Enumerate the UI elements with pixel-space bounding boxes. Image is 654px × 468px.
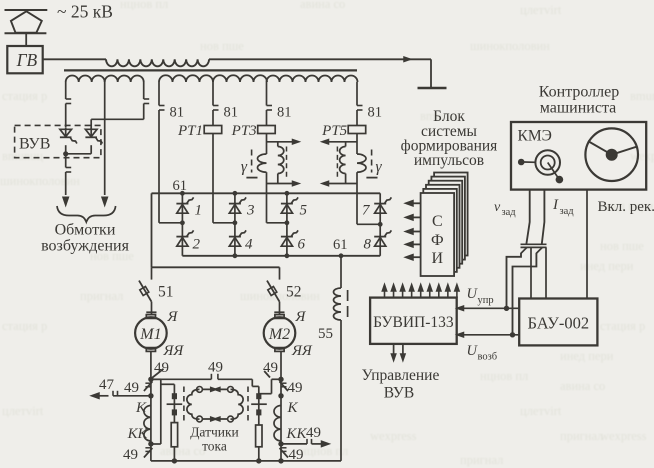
svg-text:Ф: Ф [431,232,444,249]
svg-text:Управление: Управление [362,367,440,384]
svg-text:49: 49 [288,380,303,396]
svg-text:49: 49 [124,380,139,396]
svg-text:61: 61 [173,178,188,194]
svg-text:2: 2 [193,237,201,253]
svg-text:wexpress: wexpress [600,429,647,443]
svg-text:возбуждения: возбуждения [41,238,130,255]
svg-text:КМЭ: КМЭ [518,128,552,145]
svg-text:wexpress: wexpress [370,429,417,443]
svg-text:стация р: стация р [600,319,645,333]
svg-text:49: 49 [154,360,169,376]
svg-text:нов пше: нов пше [600,239,644,253]
svg-text:ВУВ: ВУВ [19,136,50,153]
svg-text:стация р: стация р [2,319,47,333]
svg-text:возб: возб [478,352,498,363]
svg-text:Обмотки: Обмотки [55,222,116,239]
svg-text:γ: γ [241,159,248,176]
svg-text:Датчики: Датчики [190,425,239,440]
svg-text:51: 51 [158,284,174,301]
svg-text:4: 4 [245,237,253,253]
svg-text:52: 52 [286,284,302,301]
svg-text:ГВ: ГВ [16,50,38,70]
svg-text:цлетvirt: цлетvirt [520,404,562,418]
svg-text:РТ5: РТ5 [321,123,348,139]
svg-text:пригнал: пригнал [460,453,503,467]
svg-text:~ 25 кВ: ~ 25 кВ [57,2,113,22]
svg-text:шинокполовин: шинокполовин [0,174,80,188]
svg-text:Контроллер: Контроллер [539,84,619,101]
svg-text:шинокполовин: шинокполовин [470,39,550,53]
svg-text:81: 81 [368,105,383,121]
svg-text:КК: КК [127,426,149,442]
svg-text:49: 49 [263,360,278,376]
svg-text:Я: Я [295,309,307,325]
svg-text:инед пери: инед пери [580,259,634,273]
svg-text:цлетvirt: цлетvirt [520,3,562,17]
svg-text:81: 81 [224,105,239,121]
svg-text:БАУ-002: БАУ-002 [527,314,589,333]
svg-text:нцнов пл: нцнов пл [480,369,528,383]
svg-text:61: 61 [333,237,348,253]
svg-text:авина со: авина со [300,0,345,11]
svg-text:Я: Я [167,309,179,325]
svg-text:3: 3 [246,203,255,219]
svg-text:РТ1: РТ1 [177,123,203,139]
svg-text:wexpress: wexpress [630,149,654,163]
svg-text:ЯЯ: ЯЯ [163,343,185,359]
svg-text:55: 55 [318,326,333,342]
svg-text:I: I [552,197,559,213]
svg-text:упр: упр [478,295,494,306]
svg-text:пригнал: пригнал [80,289,123,303]
svg-text:нцнов пл: нцнов пл [120,0,168,11]
svg-text:нов пше: нов пше [200,39,244,53]
svg-text:5: 5 [300,203,308,219]
svg-text:6: 6 [298,237,306,253]
svg-text:v: v [494,200,501,215]
svg-text:49: 49 [306,425,321,441]
svg-text:Вкл. рек.: Вкл. рек. [598,199,654,215]
svg-text:ЯЯ: ЯЯ [291,343,313,359]
svg-text:И: И [432,250,444,267]
svg-text:49: 49 [208,360,223,376]
svg-text:КК: КК [286,426,308,442]
svg-text:шинокполовин: шинокполовин [240,289,320,303]
svg-text:авина со: авина со [560,379,605,393]
svg-text:47: 47 [99,377,115,393]
svg-text:М1: М1 [139,326,161,343]
svg-text:БУВИП-133: БУВИП-133 [373,314,454,331]
svg-text:авина со: авина со [160,444,205,458]
svg-text:инед пери: инед пери [560,349,614,363]
svg-text:ВУВ: ВУВ [384,385,414,402]
svg-text:РТ3: РТ3 [231,123,257,139]
svg-text:тока: тока [202,439,227,454]
svg-text:М2: М2 [268,326,290,343]
svg-text:машиниста: машиниста [540,100,617,117]
svg-text:пригнал: пригнал [560,429,603,443]
svg-text:С: С [432,213,443,230]
svg-text:1: 1 [195,203,203,219]
svg-text:зад: зад [502,207,517,218]
svg-text:49: 49 [123,447,138,463]
svg-text:вmunuц: вmunuц [630,89,654,103]
svg-text:γ: γ [376,159,383,176]
svg-text:8: 8 [364,237,372,253]
svg-text:К: К [135,400,147,416]
svg-text:стация р: стация р [2,89,47,103]
svg-text:81: 81 [170,105,185,121]
svg-text:К: К [287,400,299,416]
svg-text:цлетvirt: цлетvirt [2,404,44,418]
svg-text:81: 81 [277,105,292,121]
svg-text:импульсов: импульсов [414,152,484,169]
svg-text:зад: зад [560,206,575,217]
